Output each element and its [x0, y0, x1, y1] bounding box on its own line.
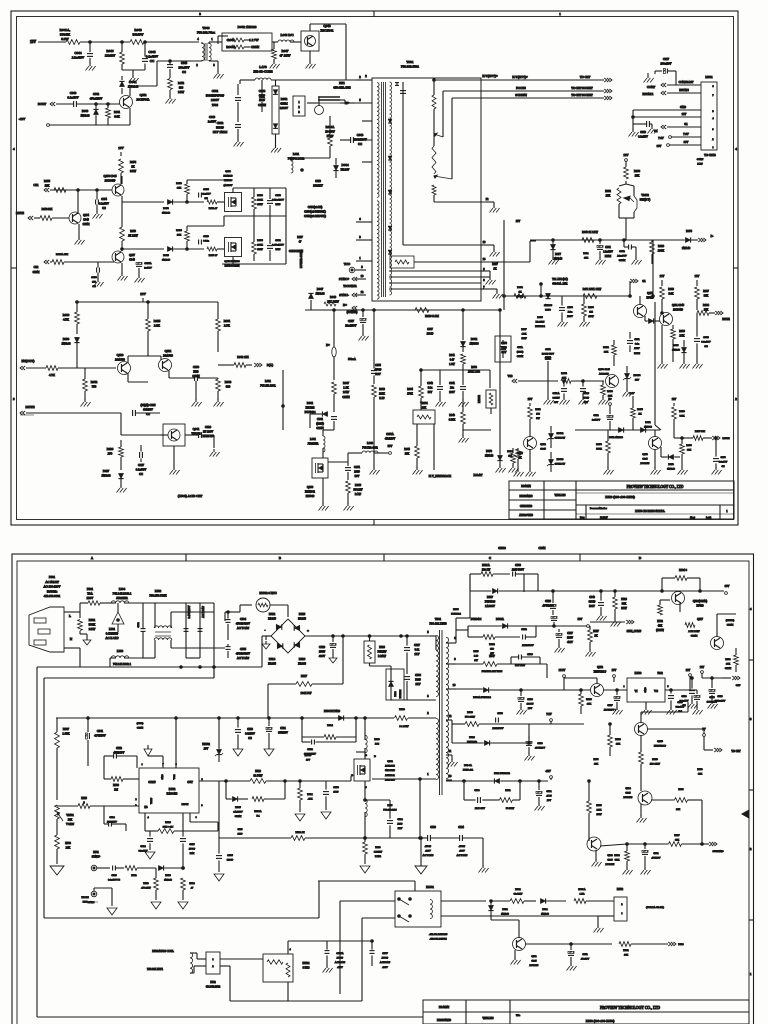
svg-text:745.720.4862: 745.720.4862	[362, 447, 378, 450]
svg-text:0.01: 0.01	[415, 649, 420, 652]
svg-text:MR802: MR802	[478, 394, 481, 403]
svg-text:5: 5	[427, 631, 429, 634]
svg-text:C51?: C51?	[237, 828, 242, 831]
wire GND pin	[633, 106, 701, 130]
svg-text:3: 3	[667, 685, 669, 688]
svg-text:2.7K: 2.7K	[679, 335, 684, 338]
capacitor C654	[96, 189, 109, 212]
svg-text:FUF5404: FUF5404	[451, 613, 461, 616]
resistor R542b	[619, 942, 668, 957]
arrow G1	[654, 123, 701, 133]
svg-text:120: 120	[490, 648, 495, 651]
svg-text:T3A: T3A	[87, 592, 93, 596]
net -12V	[19, 117, 130, 126]
resistor R512b	[468, 626, 520, 655]
gnd triangle	[295, 814, 305, 821]
svg-text:R512: R512	[489, 643, 495, 646]
capacitor C550	[493, 712, 504, 730]
wire q511 row	[525, 943, 612, 945]
svg-text:Q656 C945: Q656 C945	[104, 175, 118, 178]
svg-text:R643: R643	[134, 28, 142, 32]
svg-text:4700P: 4700P	[459, 845, 466, 848]
svg-text:7/GS: 7/GS	[212, 103, 219, 107]
svg-text:0.1u/50V: 0.1u/50V	[719, 462, 728, 464]
svg-text:R559: R559	[652, 758, 658, 761]
svg-text:Q621: Q621	[165, 349, 172, 353]
svg-text:1: 1	[621, 913, 623, 915]
svg-text:D644: D644	[341, 163, 348, 167]
resistor R672d	[528, 407, 542, 437]
wire ac return bottom	[37, 667, 423, 1017]
wire Q640 collector to rail	[310, 24, 346, 80]
svg-text:R671 150K 1/2W: R671 150K 1/2W	[583, 288, 602, 291]
svg-text:R629 3.3M: R629 3.3M	[425, 314, 439, 318]
T601 screen tap	[434, 98, 481, 179]
svg-text:D68?: D68?	[673, 344, 678, 347]
capacitor C516	[108, 866, 124, 882]
wire PH1 to T601 pin5	[307, 97, 372, 106]
arrow TO CRT	[704, 748, 741, 753]
svg-text:4.7K: 4.7K	[63, 318, 70, 322]
svg-text:C510: C510	[319, 646, 326, 649]
resistor R501	[78, 612, 97, 634]
svg-text:470 1/4W: 470 1/4W	[141, 887, 151, 890]
svg-text:CC: CC	[102, 207, 106, 210]
wire rt501	[288, 940, 327, 942]
svg-text:473/250V: 473/250V	[385, 438, 396, 441]
svg-text:10K: 10K	[587, 703, 592, 706]
net 56V	[560, 618, 589, 627]
svg-text:RL501: RL501	[426, 886, 434, 889]
svg-text:C945: C945	[607, 859, 613, 862]
svg-text:2SK2141: 2SK2141	[385, 774, 395, 777]
svg-text:1KV 220P: 1KV 220P	[515, 664, 526, 667]
svg-text:2SC945P: 2SC945P	[599, 373, 609, 376]
svg-text:250V: 250V	[87, 596, 95, 600]
resistor R641	[106, 103, 121, 125]
svg-text:R55?: R55?	[593, 758, 598, 761]
svg-text:MEM: MEM	[634, 352, 641, 355]
svg-text:1000P: 1000P	[427, 333, 434, 336]
transistor Q513	[587, 837, 615, 866]
svg-text:1.20: 1.20	[474, 655, 479, 658]
arrow C52	[33, 260, 50, 274]
svg-text:R523: R523	[375, 846, 381, 849]
svg-text:400V: 400V	[425, 850, 431, 853]
svg-text:WELLES: WELLES	[482, 1017, 493, 1020]
wire 12V pin	[632, 113, 701, 118]
svg-text:V+ADJ: V+ADJ	[66, 823, 74, 826]
svg-text:L502: L502	[155, 589, 162, 593]
diode D647	[308, 288, 325, 310]
svg-text:R520A: R520A	[254, 810, 261, 813]
svg-text:TO CRT: TO CRT	[732, 750, 741, 753]
svg-text:750.250.772H: 750.250.772H	[149, 594, 167, 598]
resistor R656	[252, 237, 264, 261]
ground	[658, 325, 703, 369]
svg-text:1: 1	[559, 12, 561, 16]
svg-text:10: 10	[453, 684, 456, 687]
svg-text:1N4148: 1N4148	[672, 349, 681, 352]
svg-text:C561: C561	[653, 852, 659, 855]
capacitor C539	[709, 677, 726, 703]
sheet2 border frame	[12, 554, 754, 1024]
label HV_FEEDBACK	[429, 424, 452, 478]
wire FOCUS to CRT	[481, 86, 612, 93]
svg-text:0.1u/50V: 0.1u/50V	[701, 341, 711, 344]
wire diff emitters	[128, 352, 161, 363]
svg-text:C534: C534	[109, 816, 115, 819]
wire AC to bridge	[80, 636, 271, 667]
label PIN	[289, 250, 303, 268]
wire	[77, 352, 116, 368]
svg-text:IRFBC40: IRFBC40	[385, 778, 395, 781]
svg-text:C652(x0.82K/47K): C652(x0.82K/47K)	[304, 215, 326, 218]
label cluster	[385, 433, 396, 441]
svg-text:GND: GND	[161, 774, 164, 779]
arrow DCONT	[698, 235, 713, 242]
capacitor C561	[642, 843, 661, 868]
label cluster	[305, 754, 312, 762]
svg-text:R51?: R51?	[473, 650, 478, 653]
capacitor C558	[667, 689, 685, 715]
ground	[436, 399, 469, 407]
svg-text:1u/50V: 1u/50V	[208, 121, 216, 124]
inductor L640 R/C	[278, 33, 301, 42]
svg-text:TO POWER: TO POWER	[343, 285, 356, 288]
svg-text:R.NF: R.NF	[355, 493, 362, 496]
svg-text:12: 12	[449, 715, 452, 718]
svg-text:220 1/2W: 220 1/2W	[650, 763, 661, 766]
svg-text:D504: D504	[395, 691, 397, 697]
net 12V	[140, 292, 146, 296]
cap C503 0.47U	[184, 603, 192, 658]
svg-text:0.47: 0.47	[450, 359, 455, 362]
svg-text:R679: R679	[679, 410, 685, 413]
wire down	[214, 603, 225, 678]
ground	[544, 381, 609, 405]
resistor R550	[608, 723, 622, 756]
wire bright	[530, 239, 652, 242]
svg-text:1A/250V: 1A/250V	[233, 811, 243, 814]
capacitor C676	[713, 437, 728, 469]
svg-text:D670: D670	[545, 309, 551, 312]
svg-text:400V: 400V	[567, 641, 573, 644]
svg-text:1N4148: 1N4148	[541, 913, 550, 916]
svg-text:R557: R557	[674, 834, 680, 837]
thermistor RT502 NTC	[256, 591, 288, 617]
net 7.2V	[529, 713, 552, 724]
capacitor C517	[404, 635, 421, 674]
svg-text:N: N	[70, 637, 73, 641]
wire	[272, 41, 278, 43]
svg-text:3900P 50JV: 3900P 50JV	[542, 353, 554, 356]
capacitor C522	[302, 737, 356, 756]
svg-text:C641: C641	[317, 418, 324, 421]
svg-text:BRITE: BRITE	[722, 318, 730, 321]
svg-text:R672: R672	[535, 408, 541, 411]
label TP1 AFC	[540, 278, 569, 286]
capacitor C507A	[325, 941, 346, 969]
mosfet Q651 IRF640	[223, 170, 241, 212]
ground	[117, 446, 220, 493]
svg-text:C658: C658	[91, 276, 97, 279]
svg-text:OPEN: OPEN	[316, 427, 323, 430]
svg-text:470U: 470U	[546, 795, 552, 798]
svg-text:R667: R667	[521, 328, 527, 331]
svg-text:R527: R527	[593, 630, 599, 633]
resistor R686	[624, 167, 641, 179]
svg-text:R687: R687	[703, 290, 709, 293]
resistor R665c	[346, 481, 363, 504]
inductor L640b	[362, 442, 392, 454]
transistor Q641 TIP122	[121, 413, 201, 446]
wire p502 pin1	[220, 958, 263, 960]
svg-text:6NC60FP: 6NC60FP	[385, 769, 396, 772]
ground	[604, 449, 722, 475]
capacitor C521	[266, 717, 288, 746]
note text	[304, 206, 326, 218]
wire	[546, 664, 548, 678]
svg-text:2SC945P: 2SC945P	[623, 796, 633, 799]
ground	[234, 139, 244, 147]
svg-text:11: 11	[449, 750, 452, 753]
svg-text:27K: 27K	[606, 195, 611, 198]
svg-text:Q640: Q640	[323, 24, 331, 28]
junction	[400, 635, 403, 638]
resistor R654A	[50, 253, 114, 264]
svg-text:R647: R647	[343, 382, 350, 385]
svg-text:C945: C945	[540, 448, 546, 451]
svg-text:1: 1	[359, 256, 361, 260]
svg-text:C603: C603	[259, 89, 266, 93]
T601 primary winding	[377, 83, 379, 300]
svg-text:VR501: VR501	[66, 814, 74, 817]
svg-text:T640: T640	[203, 26, 210, 30]
svg-text:1N4148: 1N4148	[164, 879, 173, 882]
label cluster	[137, 722, 144, 730]
svg-text:3: 3	[298, 111, 300, 114]
svg-text:D522: D522	[502, 908, 508, 911]
svg-text:650.0RL.50E: 650.0RL.50E	[333, 86, 350, 90]
pot VR501	[55, 805, 75, 826]
svg-text:180: 180	[508, 455, 512, 458]
ground	[558, 319, 590, 327]
diode D505	[226, 781, 248, 818]
svg-text:25V: 25V	[528, 707, 533, 710]
net 15V	[118, 146, 124, 156]
svg-text:C527: C527	[567, 632, 573, 635]
svg-text:R525: R525	[81, 797, 87, 800]
diode D503	[158, 865, 184, 881]
capacitor C601	[206, 84, 241, 122]
svg-text:10K: 10K	[676, 808, 680, 811]
svg-text:1: 1	[212, 958, 214, 961]
arrow MUTE2	[20, 405, 35, 415]
svg-text:BYT42M: BYT42M	[400, 690, 402, 699]
svg-text:FUF54B4: FUF54B4	[535, 325, 545, 328]
capacitor C646 100uF	[167, 60, 190, 78]
svg-text:CC: CC	[204, 197, 208, 200]
svg-text:8: 8	[483, 279, 485, 282]
svg-text:VI: VI	[635, 690, 638, 693]
svg-text:A: A	[91, 556, 94, 560]
svg-text:VO: VO	[654, 690, 658, 693]
T501 pin1 drain	[372, 773, 436, 839]
svg-text:1000U: 1000U	[527, 703, 534, 706]
svg-text:745.786.3082: 745.786.3082	[288, 157, 305, 161]
resistor R687	[695, 287, 710, 310]
svg-text:(220P): (220P)	[316, 423, 324, 426]
wire afc	[504, 295, 630, 297]
sheet1 caption	[178, 494, 202, 498]
svg-text:C672A: C672A	[386, 433, 394, 436]
T601 pin 10 gnd	[403, 241, 500, 257]
svg-text:D514: D514	[269, 658, 276, 661]
resistor R663	[216, 378, 232, 400]
capacitor C524b	[364, 799, 404, 838]
choke L502	[143, 589, 186, 658]
svg-text:15V: 15V	[118, 146, 124, 150]
svg-text:L641: L641	[310, 438, 317, 441]
svg-text:C657: C657	[348, 320, 355, 323]
transistor Q656	[104, 175, 124, 196]
transistor Q512	[564, 666, 607, 697]
label TO CRTB	[704, 154, 716, 157]
svg-text:OPEN: OPEN	[517, 355, 524, 358]
T601 right pins gnd	[481, 271, 503, 299]
svg-text:4: 4	[750, 607, 752, 611]
ground	[319, 503, 329, 511]
svg-text:1N4003: 1N4003	[644, 426, 653, 429]
flyback T601 outline	[372, 60, 481, 301]
svg-text:C522: C522	[307, 748, 313, 751]
wire gate	[300, 776, 351, 781]
arrow C51	[33, 183, 49, 192]
svg-text:.47K: .47K	[308, 798, 313, 801]
resistor R509	[104, 777, 139, 792]
svg-text:Q515: Q515	[657, 740, 663, 743]
svg-text:MPP: MPP	[275, 248, 281, 251]
svg-text:R656: R656	[176, 229, 182, 232]
svg-text:C654(x0.56E/30K): C654(x0.56E/30K)	[304, 211, 326, 214]
capacitor C671c	[345, 462, 361, 480]
svg-text:0.022U: 0.022U	[552, 397, 559, 400]
svg-text:R641: R641	[449, 354, 455, 357]
resistor R658	[34, 208, 69, 220]
resistor R525	[57, 797, 139, 808]
arrow G1 out	[630, 279, 646, 296]
svg-text:R511A: R511A	[482, 564, 490, 567]
capacitor C671d	[542, 348, 554, 381]
relay RL501	[395, 886, 448, 941]
svg-text:OPEN: OPEN	[691, 635, 698, 638]
net 7.6V	[658, 133, 701, 140]
svg-text:C645: C645	[148, 50, 155, 54]
svg-text:2SC5706L: 2SC5706L	[136, 98, 149, 102]
svg-text:FUFS-401: FUFS-401	[463, 769, 474, 772]
wire N	[64, 648, 110, 667]
capacitor C566	[214, 838, 234, 881]
capacitor C508	[464, 781, 495, 810]
svg-text:12V: 12V	[660, 275, 665, 278]
svg-text:KSC5061: KSC5061	[320, 29, 333, 33]
arrow SIZE_COMP	[590, 620, 642, 633]
transistor Q670	[598, 368, 618, 388]
svg-text:C514: C514	[140, 845, 146, 848]
capacitor C507	[327, 940, 391, 969]
inductor L503	[110, 649, 143, 667]
arrow OFF	[722, 676, 741, 687]
svg-text:CC: CC	[139, 473, 143, 476]
connector FROM FBT	[81, 888, 112, 906]
svg-text:C671?: C671?	[583, 392, 589, 395]
svg-text:(220P): (220P)	[517, 351, 524, 354]
wire hv fb net	[440, 370, 490, 388]
svg-text:Q517: Q517	[697, 618, 703, 621]
svg-text:C671: C671	[354, 466, 361, 469]
label cluster	[697, 158, 704, 166]
svg-text:-12V: -12V	[19, 117, 26, 121]
svg-text:SIZE_COMP: SIZE_COMP	[627, 630, 642, 633]
svg-text:15K 1/2W: 15K 1/2W	[327, 301, 339, 304]
bridge D514	[268, 643, 283, 665]
capacitor C557	[604, 689, 623, 715]
svg-text:560 1/2W: 560 1/2W	[465, 716, 476, 719]
capacitor C651	[267, 237, 284, 261]
diode D682	[672, 340, 686, 362]
wire B+ rail	[305, 309, 500, 311]
svg-text:ACY.CAP: ACY.CAP	[380, 961, 391, 964]
arrow DEG	[668, 942, 684, 946]
svg-text:C51: C51	[33, 183, 39, 187]
label cluster	[697, 768, 703, 776]
resistor R642b	[218, 356, 252, 367]
label cluster	[515, 664, 526, 667]
svg-text:Q511: Q511	[531, 955, 537, 958]
diode D522	[488, 900, 509, 920]
svg-text:.402.001.212DM: .402.001.212DM	[429, 938, 447, 941]
svg-text:(X648).AC58 CRT: (X648).AC58 CRT	[178, 494, 202, 498]
label cluster	[473, 650, 478, 662]
T601 core	[382, 82, 386, 297]
svg-text:SUSPEND: SUSPEND	[712, 850, 723, 853]
svg-text:C540: C540	[589, 596, 595, 599]
svg-text:R504 0: R504 0	[679, 569, 687, 572]
T501 pin13	[446, 775, 452, 780]
svg-text:GND: GND	[644, 687, 647, 692]
svg-text:RL205: RL205	[268, 663, 276, 666]
svg-text:100u/16V: 100u/16V	[660, 63, 671, 66]
transistor Q514	[623, 787, 652, 816]
svg-text:R686: R686	[634, 170, 641, 173]
svg-text:MEM 5%: MEM 5%	[202, 435, 214, 438]
title block sheet1	[509, 481, 734, 519]
svg-text:C626: C626	[205, 426, 212, 429]
svg-text:CC: CC	[150, 59, 155, 63]
svg-text:R655: R655	[44, 180, 51, 183]
svg-text:Q670 C945: Q670 C945	[598, 368, 610, 371]
svg-text:VR602: VR602	[641, 194, 649, 197]
ic IC503 7812	[603, 672, 688, 715]
svg-text:D521: D521	[542, 908, 548, 911]
svg-text:D647: D647	[317, 288, 324, 291]
capacitor C661	[597, 239, 613, 259]
svg-text:Q657: Q657	[129, 254, 135, 257]
svg-text:680/50V: 680/50V	[143, 409, 153, 412]
svg-text:R516: R516	[379, 646, 385, 649]
resistor R556	[587, 780, 603, 838]
